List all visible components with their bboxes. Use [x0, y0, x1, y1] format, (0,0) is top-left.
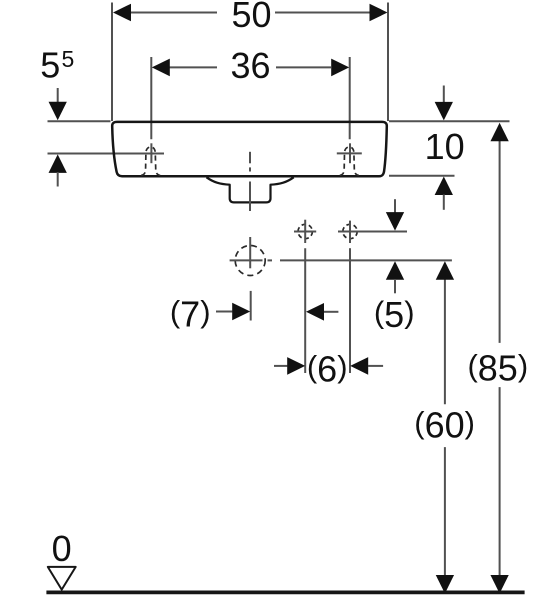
dimension (60) arrow up	[436, 261, 454, 280]
dimension 10 bottom line	[389, 175, 455, 177]
dimension 10 arrow down	[443, 86, 445, 104]
drain level line	[280, 259, 452, 261]
dimension (5) arrow up	[386, 261, 404, 280]
left fixing bolt (dashed)	[141, 143, 160, 175]
dimension (7) arrow right	[216, 311, 232, 313]
datum triangle	[48, 567, 76, 590]
dimension (60) line	[444, 280, 446, 405]
tap hole left crosshair horizontal	[294, 231, 316, 233]
dimension (6) arrow right	[274, 365, 287, 367]
dimension 36 extension line right	[349, 57, 351, 139]
drain crosshair vertical	[249, 237, 251, 268]
drain crosshair horizontal	[230, 259, 263, 261]
svg-text:(6): (6)	[307, 349, 348, 390]
drain centerline tick below	[250, 291, 252, 321]
dimension 50 extension line right	[387, 3, 389, 122]
basin centerline (dashed)	[249, 152, 251, 164]
svg-text:0: 0	[52, 528, 72, 569]
dimension (5) arrow down	[394, 199, 396, 213]
drain circle (dashed)	[235, 246, 265, 276]
dimension (6) arrow left	[350, 357, 368, 375]
dimension 50 line	[130, 12, 217, 14]
dimension 10 arrow up	[435, 177, 453, 196]
right fixing bolt (dashed)	[340, 143, 359, 175]
svg-text:36: 36	[230, 45, 270, 86]
svg-text:(7): (7)	[170, 294, 211, 335]
svg-text:50: 50	[231, 0, 271, 35]
dimension 36 line	[169, 66, 217, 68]
svg-text:(5): (5)	[374, 294, 415, 335]
dimension 36 arrow left	[152, 59, 170, 77]
dimension 10 top line	[389, 120, 510, 122]
dimension (7) arrow left	[306, 303, 324, 321]
tap hole left vertical line	[304, 220, 306, 243]
svg-text:5: 5	[40, 45, 60, 86]
washbasin outline	[112, 122, 387, 176]
dimension 5.5 lower reference line	[48, 153, 165, 155]
dimension (85) arrow up	[490, 123, 508, 142]
floor line	[46, 591, 524, 595]
tap hole right vertical line	[349, 221, 351, 243]
dimension 5.5 arrow down	[57, 88, 59, 103]
tap hole left circle	[298, 224, 312, 238]
dimension 36 extension line left	[150, 57, 152, 139]
svg-text:(60): (60)	[414, 405, 475, 446]
dimension 50 arrow left	[113, 4, 131, 22]
drain funnel and tailpipe	[207, 177, 294, 202]
svg-text:(85): (85)	[467, 348, 528, 389]
drain centerline through tailpipe	[249, 182, 251, 212]
dimension (85) arrow down	[490, 575, 508, 594]
dimension 5.5 upper reference line	[48, 120, 111, 122]
svg-text:5: 5	[62, 46, 75, 72]
dimension 50 arrow right	[370, 4, 388, 22]
dimension 36 arrow right	[331, 59, 349, 77]
svg-text:10: 10	[425, 126, 465, 167]
tap hole right circle	[343, 224, 357, 238]
dimension (85) line	[499, 141, 501, 343]
dimension (60) arrow down	[436, 575, 454, 594]
dimension 5.5 arrow up	[49, 154, 67, 173]
dimension 50 extension line left	[111, 3, 113, 122]
tap hole level line	[338, 231, 407, 233]
right bolt level line	[337, 152, 362, 154]
